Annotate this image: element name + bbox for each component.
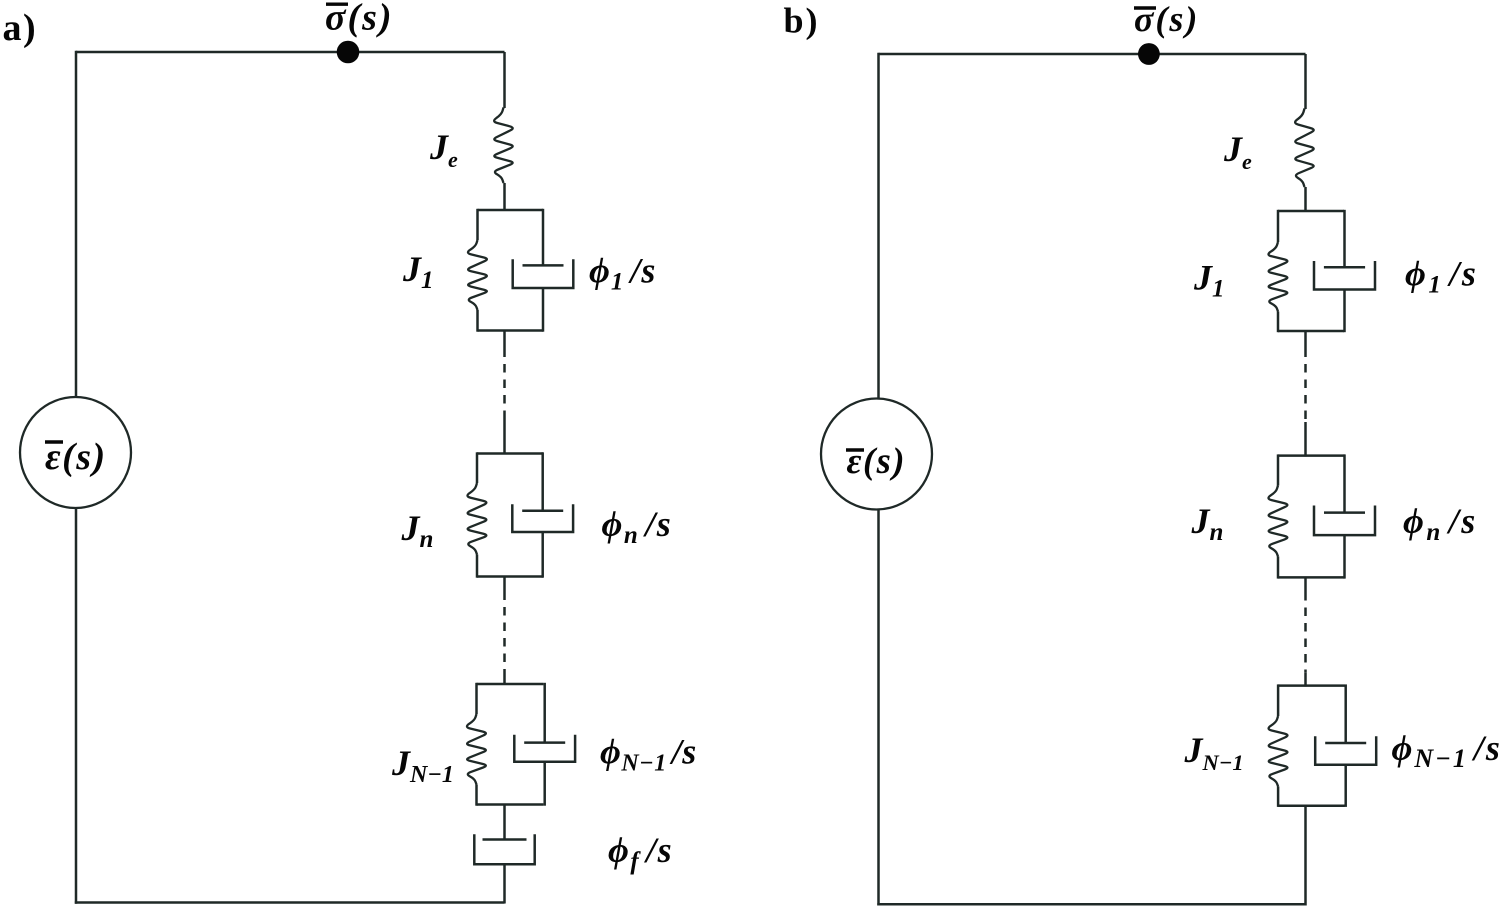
wire: unit a2 to dashed gap: [503, 577, 506, 592]
kelvin unit a2: top rail wire: [477, 452, 543, 455]
kelvin unit b2: bottom rail wire: [1278, 576, 1345, 579]
wire: left rail b lower: [877, 510, 880, 906]
label J1 b: [1193, 258, 1225, 303]
label phi1/s b: [1405, 254, 1478, 299]
label JN-1 a: [391, 743, 454, 788]
wire: top rail a: [76, 51, 505, 54]
kelvin unit b1: bottom rail wire: [1278, 330, 1344, 333]
node junction dot sigma-bar(s) b: [1138, 43, 1160, 65]
kelvin unit b1: left branch wire upper: [1277, 210, 1280, 242]
wire: left rail a lower: [75, 508, 78, 904]
label phiN-1/s a: [600, 732, 697, 777]
dashpot b2 (right branch): [1343, 454, 1346, 512]
label phiN-1/s b: [1392, 728, 1500, 773]
spring a1 (left branch): [468, 240, 487, 310]
wire: bottom rail b: [877, 903, 1305, 906]
wire: top rail b: [879, 53, 1306, 56]
kelvin unit b3: bottom rail wire: [1278, 804, 1345, 807]
label phif/s a: [608, 830, 673, 875]
kelvin unit a2: left branch wire upper: [476, 452, 479, 483]
svg-text:σ(s): σ(s): [1134, 0, 1199, 39]
wire: dashed continuation b (units 1..n): [1304, 349, 1307, 423]
wire: left rail a upper: [75, 51, 78, 397]
wire: drop from top rail to spring Je b: [1304, 54, 1307, 109]
wire: unit b3 to bottom rail b: [1304, 806, 1307, 906]
kelvin unit a3: bottom rail wire: [477, 803, 544, 806]
kelvin unit b3: left branch wire lower: [1277, 787, 1280, 807]
label JN-1 b: [1184, 730, 1244, 775]
spring Je b: [1295, 109, 1314, 188]
wire: dashed continuation b (units n..N-1): [1304, 592, 1307, 673]
kelvin unit a3: top rail wire: [477, 683, 544, 686]
kelvin unit b2: top rail wire: [1278, 454, 1345, 457]
label Jn a: [401, 508, 434, 553]
kelvin unit a1: left branch wire lower: [476, 310, 479, 332]
kelvin unit a1: bottom rail wire: [478, 329, 544, 332]
wire: left rail b upper: [877, 53, 880, 399]
svg-text:ε(s): ε(s): [847, 440, 907, 481]
source circle epsilon-bar(s) a: [20, 397, 131, 508]
label Je b: [1223, 129, 1252, 174]
label J1 a: [402, 249, 434, 294]
wire: unit b1 to dashed gap: [1304, 331, 1307, 349]
kelvin unit a3: left branch wire upper: [475, 683, 478, 714]
label Je a: [429, 127, 458, 172]
label Jn b: [1191, 501, 1224, 546]
spring a2 (left branch): [467, 483, 486, 555]
label epsilon-bar(s) b: [846, 440, 906, 481]
wire: spring Je to kelvin unit a1: [503, 183, 506, 211]
kelvin unit b3: top rail wire: [1278, 684, 1345, 687]
kelvin unit a2: left branch wire lower: [476, 555, 479, 578]
kelvin unit a1: left branch wire upper: [476, 209, 479, 240]
node junction dot sigma-bar(s) a: [337, 41, 360, 64]
kelvin unit a3: left branch wire lower: [475, 785, 478, 806]
wire: dashed continuation a (units n..N-1): [503, 592, 506, 678]
kelvin unit b3: left branch wire upper: [1277, 684, 1280, 716]
kelvin unit b2: left branch wire upper: [1277, 454, 1280, 485]
svg-text:a): a): [3, 7, 38, 49]
wire: drop from top rail to spring Je a: [503, 52, 506, 108]
wire: bottom rail a: [75, 901, 505, 904]
dashpot b1 (right branch): [1343, 210, 1346, 267]
wire: unit b2 to dashed gap: [1304, 577, 1307, 592]
label epsilon-bar(s) a: [45, 436, 107, 478]
wire: unit a1 to dashed gap: [503, 331, 506, 349]
label sigma-bar(s) a: [325, 0, 394, 39]
dashpot a3 (right branch): [543, 683, 546, 743]
wire: dashed gap to unit a3: [503, 678, 506, 686]
label sigma-bar(s) b: [1134, 0, 1199, 39]
label phin/s b: [1403, 501, 1478, 546]
spring Je a: [494, 108, 513, 184]
dashpot a1 (right branch): [542, 209, 545, 266]
wire: spring Je to kelvin unit b1: [1304, 187, 1307, 212]
dashpot a2 (right branch): [541, 452, 544, 510]
kelvin unit b1: top rail wire: [1278, 210, 1344, 213]
wire: dashed gap to unit a2: [503, 419, 506, 455]
label phin/s a: [602, 504, 673, 549]
svg-text:b): b): [784, 1, 820, 41]
dashpot b3 (right branch): [1344, 684, 1347, 743]
kelvin unit a1: top rail wire: [478, 209, 544, 212]
wire: dashed continuation a (units 1..n): [503, 349, 506, 420]
source circle epsilon-bar(s) b: [821, 399, 932, 510]
label phi1/s a: [589, 251, 656, 296]
spring b3 (left branch): [1269, 716, 1288, 787]
spring b2 (left branch): [1268, 486, 1287, 557]
kelvin unit b1: left branch wire lower: [1277, 312, 1280, 333]
wire: dashed gap to unit b3: [1304, 673, 1307, 687]
kelvin unit a2: bottom rail wire: [477, 575, 543, 578]
spring a3 (left branch): [467, 714, 486, 785]
series dashpot phi_f/s a: [503, 804, 506, 840]
kelvin unit b2: left branch wire lower: [1277, 557, 1280, 579]
wire: dashed gap to unit b2: [1304, 422, 1307, 457]
spring b1 (left branch): [1268, 242, 1287, 312]
